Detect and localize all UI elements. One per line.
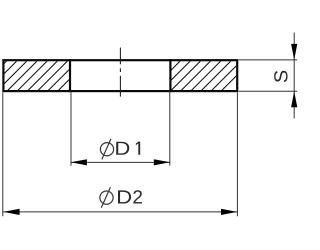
washer outline bbox=[3, 60, 237, 91]
centerline bbox=[119, 48, 121, 97]
extension line S bottom bbox=[239, 90, 298, 92]
arrow D2 right bbox=[221, 209, 237, 215]
arrow D2 left bbox=[3, 209, 19, 215]
hole right edge bbox=[169, 59, 171, 92]
extension line D1 right bbox=[169, 92, 171, 165]
extension line S top bbox=[239, 59, 298, 61]
arrow S bottom bbox=[291, 91, 297, 107]
diameter symbol D1 bbox=[100, 139, 113, 160]
diameter symbol D2 bbox=[100, 187, 113, 208]
arrow D1 right bbox=[154, 159, 170, 165]
hatch left section bbox=[0, 51, 108, 102]
dimension line D1 bbox=[71, 161, 170, 163]
label D2 bbox=[118, 190, 142, 203]
hole left edge bbox=[69, 59, 71, 92]
label D1 bbox=[116, 142, 140, 155]
hatch right section bbox=[129, 51, 261, 102]
extension line D1 left bbox=[70, 92, 72, 165]
dimension line S bbox=[293, 33, 295, 119]
extension line D2 right bbox=[236, 92, 238, 216]
label S bbox=[274, 71, 287, 82]
dimension line D2 bbox=[3, 211, 237, 213]
arrow D1 left bbox=[71, 159, 87, 165]
extension line D2 left bbox=[2, 92, 4, 216]
arrow S top bbox=[291, 44, 297, 60]
